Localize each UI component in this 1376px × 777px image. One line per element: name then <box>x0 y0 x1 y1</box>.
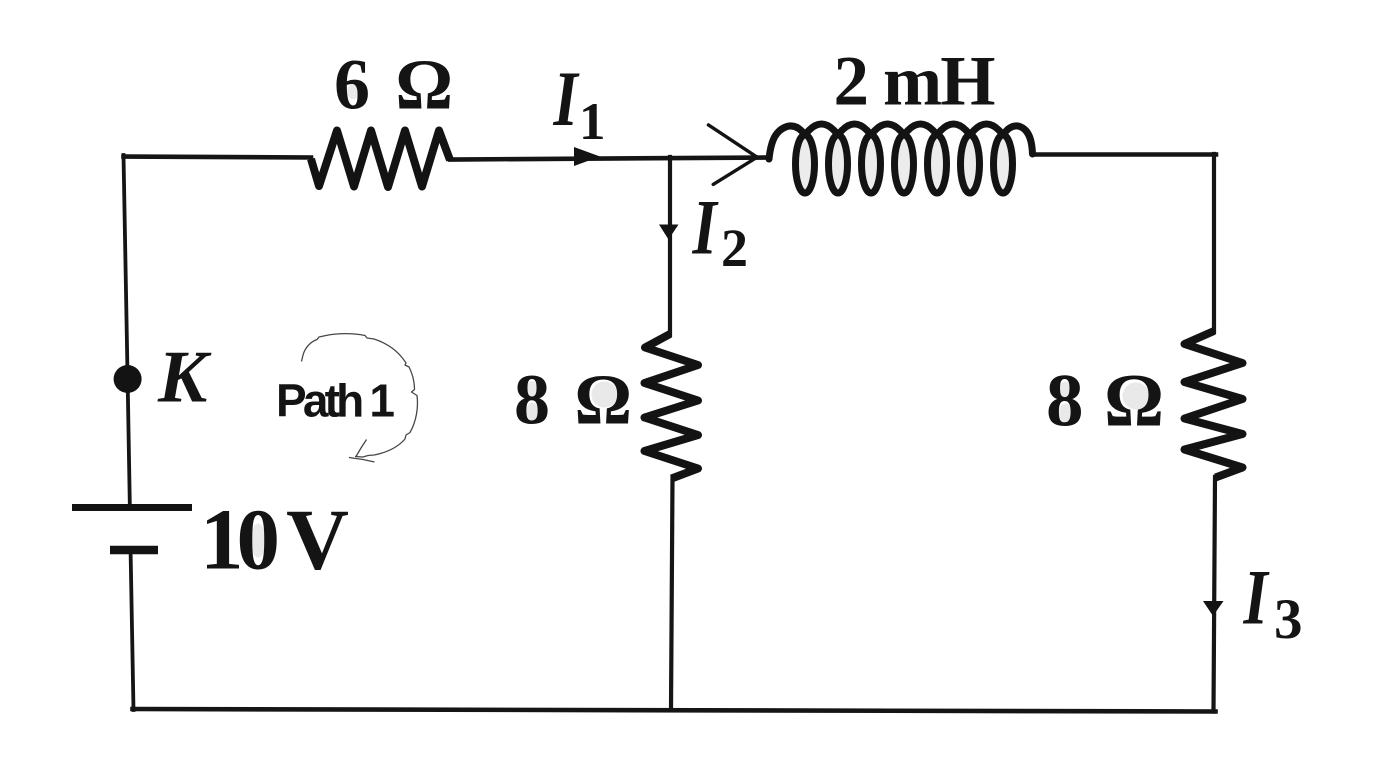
svg-text:K: K <box>157 337 212 419</box>
svg-text:I: I <box>1243 555 1270 641</box>
svg-text:1: 1 <box>579 93 606 151</box>
svg-text:10 V: 10 V <box>200 491 349 588</box>
svg-text:8 Ω: 8 Ω <box>1046 360 1164 443</box>
svg-text:8 Ω: 8 Ω <box>514 360 632 440</box>
svg-text:I: I <box>692 185 719 271</box>
svg-text:6 Ω: 6 Ω <box>334 45 453 125</box>
svg-text:2 mH: 2 mH <box>834 43 996 121</box>
svg-text:Path 1: Path 1 <box>276 375 395 427</box>
svg-text:3: 3 <box>1274 588 1303 651</box>
svg-text:2: 2 <box>721 218 748 278</box>
svg-text:I: I <box>553 57 580 143</box>
